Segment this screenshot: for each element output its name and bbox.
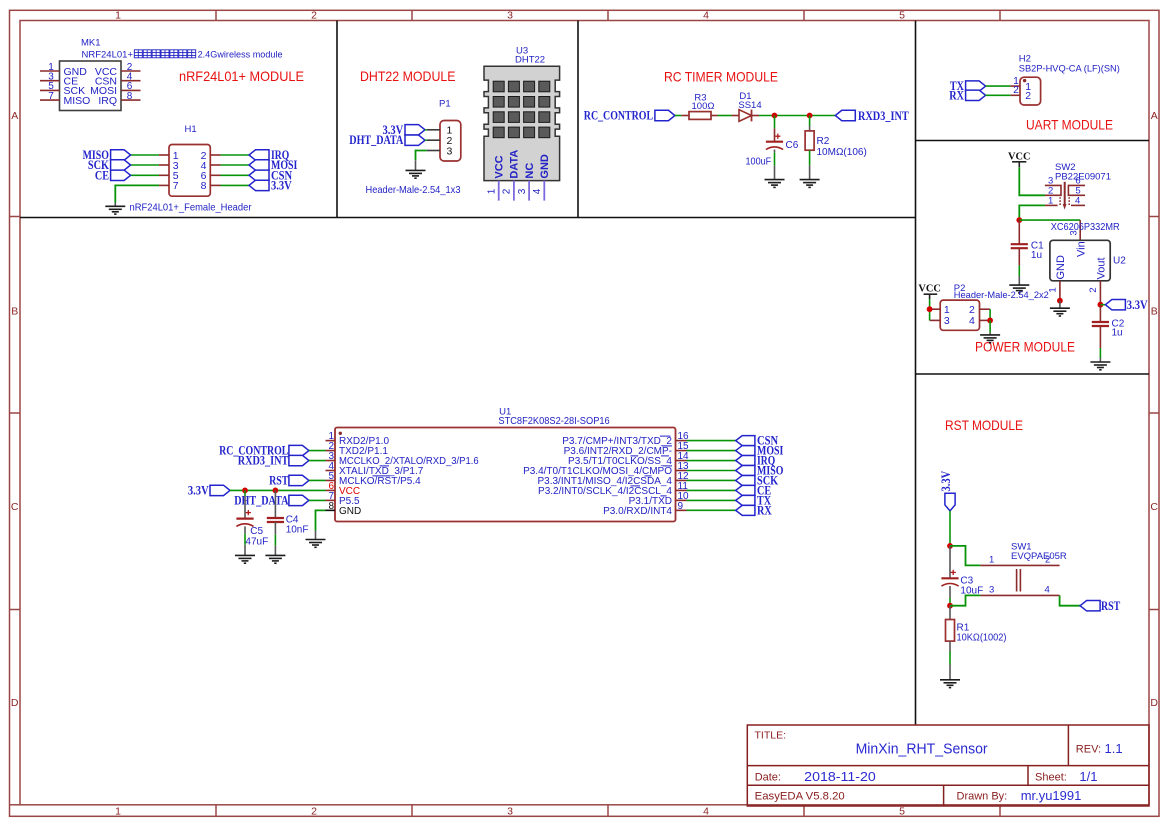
svg-text:NRF24L01+: NRF24L01+ (82, 50, 134, 61)
svg-text:4: 4 (969, 315, 975, 327)
svg-text:2.4Gwireless module: 2.4Gwireless module (198, 50, 283, 61)
H2 pin 2 stub (1010, 94, 1020, 96)
svg-text:5: 5 (899, 806, 905, 818)
H1 pin 3 stub (159, 164, 169, 166)
svg-text:8: 8 (127, 91, 133, 102)
svg-text:R2: R2 (817, 136, 830, 147)
svg-text:2: 2 (502, 188, 513, 194)
wire U1 pin 13 to flag (687, 469, 736, 471)
svg-text:47uF: 47uF (245, 537, 268, 548)
svg-text:RST MODULE: RST MODULE (945, 417, 1023, 433)
H1 pin 8 stub (210, 184, 220, 186)
H1 pin 5 stub (159, 174, 169, 176)
net flag RC_CONTROL (655, 110, 675, 120)
MK1 pin 2 stub (121, 70, 141, 72)
svg-text:Sheet:: Sheet: (1035, 772, 1067, 784)
frame column ticks top/bottom (215, 10, 217, 20)
MK1 pin 8 stub (121, 99, 141, 101)
ground P1 (406, 170, 426, 178)
svg-text:RC_CONTROL: RC_CONTROL (584, 109, 653, 123)
wire R3 to D1 (711, 115, 718, 117)
net flag CE (111, 170, 131, 180)
MK1 pin 3 stub (40, 80, 60, 82)
svg-text:C: C (11, 501, 19, 513)
ground R2 (800, 180, 820, 188)
svg-text:UART MODULE: UART MODULE (1026, 117, 1113, 133)
svg-text:4: 4 (532, 188, 543, 194)
U1 pin 2 stub (326, 450, 336, 452)
svg-text:VCC: VCC (1008, 150, 1031, 162)
resistor R2 10M (809, 116, 811, 127)
svg-text:A: A (11, 110, 18, 122)
net flag 3.3V at Vout (1100, 304, 1105, 306)
svg-text:1: 1 (989, 554, 994, 565)
svg-text:RST: RST (269, 473, 289, 487)
net flag IRQ (736, 456, 755, 466)
junction at C6 (772, 113, 778, 119)
U1 pin5 RST overline (373, 475, 391, 477)
svg-text:RC TIMER MODULE: RC TIMER MODULE (664, 69, 778, 85)
junction at R2 (807, 113, 813, 119)
junction P2 pin4 (987, 318, 993, 324)
divider DHT22/RC-timer (577, 21, 579, 218)
MK1 pin 4 stub (121, 80, 141, 82)
svg-text:GND: GND (1055, 255, 1067, 280)
svg-text:1u: 1u (1031, 250, 1042, 261)
svg-text:8: 8 (201, 180, 207, 192)
net flag RC_CONTROL (U1) (289, 445, 309, 455)
U1 pin 11 stub (676, 489, 687, 491)
svg-text:7: 7 (48, 91, 54, 102)
U1 pin 3 stub (326, 460, 336, 462)
H1 pin 4 stub (210, 164, 220, 166)
svg-text:DHT22: DHT22 (515, 55, 545, 66)
U3 pin 3 (528, 181, 530, 201)
H1 pin 2 stub (210, 154, 220, 156)
svg-text:SS14: SS14 (738, 100, 761, 111)
svg-text:2: 2 (1088, 287, 1099, 292)
net flag TX (966, 81, 986, 91)
diode D1 SS14 (739, 110, 752, 122)
wire junction to U2 Vin (1019, 219, 1080, 221)
MK1 pin 6 stub (121, 89, 141, 91)
component MK1 nRF24L01 module symbol (60, 61, 122, 111)
svg-text:C6: C6 (786, 140, 799, 151)
svg-text:10nF: 10nF (286, 524, 309, 535)
ground C6 (765, 180, 785, 188)
svg-text:2: 2 (311, 10, 317, 22)
svg-text:B: B (1151, 306, 1158, 318)
U1 pin 4 stub (326, 469, 336, 471)
svg-text:3.3V: 3.3V (1127, 298, 1148, 312)
capacitor C3 10uF (949, 546, 951, 578)
svg-text:RXD3_INT: RXD3_INT (238, 454, 289, 468)
svg-text:MinXin_RHT_Sensor: MinXin_RHT_Sensor (856, 741, 988, 758)
U1 pin 13 stub (676, 469, 687, 471)
net flag 3.3V (U1 VCC) (210, 485, 230, 495)
U3 grille squares (493, 81, 504, 92)
U1 right label overlines (660, 435, 671, 437)
svg-text:10MΩ(106): 10MΩ(106) (817, 147, 867, 158)
wires TX/RX (986, 85, 1011, 87)
svg-text:C: C (1150, 501, 1158, 513)
svg-text:H1: H1 (185, 124, 197, 135)
net flag SCK (111, 160, 131, 170)
net flag TX (736, 495, 755, 505)
svg-text:1: 1 (1048, 195, 1053, 206)
svg-text:5: 5 (899, 10, 905, 22)
svg-text:DATA: DATA (509, 150, 521, 179)
P1 pin 1 stub (427, 129, 440, 131)
U3 pin 4 (543, 181, 545, 201)
ground C4 (265, 555, 285, 563)
svg-text:U2: U2 (1113, 256, 1126, 267)
svg-text:2: 2 (1013, 85, 1019, 96)
divider nRF/DHT22 (336, 21, 338, 218)
net flag MOSI (249, 160, 269, 170)
svg-text:3: 3 (507, 10, 513, 22)
capacitor C2 1u (1099, 305, 1101, 322)
wire U1 pin 14 to flag (687, 460, 736, 462)
capacitor C5 47uF (244, 490, 246, 496)
U2 pin1 GND stub (1059, 281, 1061, 301)
P1 pin 3 stub (427, 150, 440, 152)
MK1 pin 7 stub (40, 99, 60, 101)
svg-text:VCC: VCC (918, 283, 941, 295)
svg-text:mr.yu1991: mr.yu1991 (1021, 788, 1082, 803)
junction C5 (242, 488, 248, 494)
wire U1 pin 16 to flag (687, 440, 736, 442)
svg-text:RXD3_INT: RXD3_INT (858, 109, 909, 123)
ground R1 (940, 680, 960, 688)
svg-text:RST: RST (1101, 599, 1121, 613)
svg-text:1/1: 1/1 (1079, 769, 1097, 784)
resistor R1 10K (949, 606, 951, 620)
svg-text:4: 4 (1075, 195, 1080, 206)
net flag RST (1080, 601, 1100, 611)
svg-text:Drawn By:: Drawn By: (957, 791, 1008, 803)
U1 pin 7 stub (326, 499, 336, 501)
net flag RXD3_INT (U1) (289, 455, 309, 465)
net flag RX (966, 90, 986, 100)
U2 pin2 Vout stub (1099, 281, 1101, 305)
U3 pin 2 (513, 181, 515, 201)
module divider horizontal (top modules bottom) (20, 217, 916, 219)
junction RST top (947, 543, 953, 549)
svg-text:2018-11-20: 2018-11-20 (804, 769, 876, 784)
wire U1 pin 9 to flag (687, 509, 736, 511)
svg-text:IRQ: IRQ (98, 95, 117, 107)
svg-text:1: 1 (115, 10, 121, 22)
net flag MISO (111, 150, 131, 160)
svg-text:DHT_DATA: DHT_DATA (234, 493, 288, 507)
net flag CSN (736, 436, 755, 446)
svg-text:100Ω: 100Ω (692, 101, 715, 112)
svg-text:10KΩ(1002): 10KΩ(1002) (957, 633, 1007, 644)
svg-text:EasyEDA V5.8.20: EasyEDA V5.8.20 (755, 791, 845, 803)
svg-text:B: B (11, 306, 18, 318)
svg-text:CE: CE (95, 168, 109, 182)
svg-text:3.3V: 3.3V (188, 483, 209, 497)
net flag 3.3V vertical (945, 493, 955, 511)
ground C2 (1090, 362, 1110, 370)
svg-text:REV:: REV: (1076, 744, 1101, 756)
frame bottom corner ticks (10, 804, 21, 806)
svg-text:P3.0/RXD/INT4: P3.0/RXD/INT4 (603, 506, 672, 517)
net flag IRQ (249, 150, 269, 160)
net flag MISO (736, 465, 755, 475)
ground C5 (235, 555, 255, 563)
U1 pin 15 stub (676, 450, 687, 452)
wire U1 pin 10 to flag (687, 499, 736, 501)
divider POWER/RST (916, 373, 1150, 375)
svg-text:4: 4 (703, 806, 709, 818)
net flag MOSI (736, 446, 755, 456)
net flag 3.3V at P1 (405, 125, 425, 135)
wire P2 right pins to ground (989, 309, 991, 320)
divider UART/POWER (916, 140, 1150, 142)
svg-text:GND: GND (339, 506, 361, 517)
net flag DHT_DATA (U1) (289, 495, 309, 505)
wires H1 left (131, 154, 159, 156)
junction C1 top (1016, 217, 1022, 223)
svg-text:D: D (11, 697, 19, 709)
svg-text:3: 3 (447, 145, 453, 157)
U1 pin 10 stub (676, 499, 687, 501)
wire VCC to P2 pins (929, 299, 931, 320)
svg-text:RX: RX (949, 88, 964, 102)
capacitor C6 100uF (774, 116, 776, 129)
U1 pin 12 stub (676, 479, 687, 481)
svg-text:nRF24L01+ MODULE: nRF24L01+ MODULE (179, 68, 304, 84)
H1 pin 6 stub (210, 174, 220, 176)
svg-text:C5: C5 (250, 526, 263, 537)
svg-text:MK1: MK1 (81, 38, 101, 49)
svg-text:7: 7 (173, 180, 179, 192)
H1 pin 7 stub (159, 184, 169, 186)
svg-text:4: 4 (703, 10, 709, 22)
U1 pin 5 stub (326, 479, 336, 481)
svg-text:2: 2 (1045, 554, 1050, 565)
svg-text:P1: P1 (439, 99, 451, 110)
net flag RX (736, 505, 755, 515)
svg-text:DHT22 MODULE: DHT22 MODULE (360, 68, 456, 84)
svg-text:4: 4 (1045, 584, 1050, 595)
net flag CE (736, 485, 755, 495)
U2 pin3 Vin stub (1079, 220, 1081, 240)
divider main/right column (915, 21, 917, 726)
wire SW1 pin4 to RST flag (1060, 595, 1081, 605)
svg-text:XC6206P332MR: XC6206P332MR (1051, 222, 1120, 233)
U1 pin1 marker (339, 432, 342, 435)
svg-text:EVQPAE05R: EVQPAE05R (1011, 551, 1067, 562)
wire U1 GND pin to ground (316, 510, 326, 530)
svg-text:PB22E09071: PB22E09071 (1055, 171, 1111, 182)
svg-text:nRF24L01+_Female_Header: nRF24L01+_Female_Header (130, 202, 252, 214)
P2 pin stubs (930, 308, 941, 310)
wire U1 pin 15 to flag (687, 450, 736, 452)
svg-text:2: 2 (311, 806, 317, 818)
wire VCC to SW2 pin2 (1019, 167, 1045, 195)
H1 pin 1 stub (159, 154, 169, 156)
svg-text:1: 1 (1048, 287, 1059, 292)
svg-text:TITLE:: TITLE: (755, 730, 787, 742)
net flag RXD3_INT (835, 110, 855, 120)
resistor R3 (689, 112, 711, 120)
MK1 pin 5 stub (40, 89, 60, 91)
svg-text:3.3V: 3.3V (939, 471, 953, 492)
svg-text:DHT_DATA: DHT_DATA (349, 133, 403, 147)
svg-text:3.3V: 3.3V (271, 178, 292, 192)
wires H1 right (221, 154, 250, 156)
junction Vout (1098, 302, 1104, 308)
wire 3.3V down (949, 511, 951, 546)
frame row ticks left/right (10, 216, 21, 218)
H2 pin 1 stub (1010, 85, 1020, 87)
ground H1 (105, 206, 125, 214)
wire SW2 pin1 to junction (1019, 205, 1045, 220)
svg-text:Header-Male-2.54_1x3: Header-Male-2.54_1x3 (366, 184, 461, 196)
junction C4 (273, 488, 279, 494)
ground U1 (306, 540, 326, 548)
svg-text:100uF: 100uF (746, 157, 772, 168)
wire U1 pin 12 to flag (687, 479, 736, 481)
wire junction to SW1 pin3 (950, 595, 980, 605)
capacitor C4 10nF (274, 490, 276, 518)
ground U2 (1050, 308, 1070, 316)
U1 pin 9 stub (676, 509, 687, 511)
svg-text:3: 3 (989, 584, 994, 595)
U1 pin 8 stub (326, 509, 336, 511)
U3 pin 1 (498, 181, 500, 201)
svg-text:9: 9 (678, 501, 684, 512)
H2 pin1 marker (1023, 79, 1026, 82)
svg-text:1: 1 (944, 304, 950, 316)
MK1 pin 1 stub (40, 70, 60, 72)
net flag CSN (249, 170, 269, 180)
net flag DHT_DATA (405, 135, 425, 145)
wire P1 pin3 to ground (416, 151, 427, 161)
U1 pin 14 stub (676, 460, 687, 462)
svg-text:RX: RX (757, 503, 772, 517)
svg-text:8: 8 (328, 501, 334, 512)
svg-text:MISO: MISO (64, 95, 91, 107)
svg-text:2: 2 (969, 304, 975, 316)
svg-text:1: 1 (486, 188, 497, 194)
svg-text:NC: NC (524, 163, 536, 179)
svg-text:A: A (1151, 110, 1158, 122)
svg-text:STC8F2K08S2-28I-SOP16: STC8F2K08S2-28I-SOP16 (498, 416, 610, 427)
svg-text:Date:: Date: (755, 772, 781, 784)
junction P2 pin1 (927, 306, 933, 312)
svg-text:3: 3 (517, 188, 528, 194)
net flag 3.3V (249, 180, 269, 190)
svg-text:3: 3 (507, 806, 513, 818)
svg-text:VCC: VCC (494, 155, 506, 178)
P1 pin 2 stub (427, 139, 440, 141)
U1 pin 1 stub (326, 440, 336, 442)
U1 pin 16 stub (676, 440, 687, 442)
wire D1 to junction (752, 115, 760, 117)
svg-text:1.1: 1.1 (1105, 741, 1123, 756)
wire flag to R3 (675, 115, 681, 117)
U1 pin4 TXD overline (380, 465, 389, 467)
svg-text:GND: GND (539, 154, 551, 179)
svg-text:1u: 1u (1112, 328, 1123, 339)
svg-text:1: 1 (115, 806, 121, 818)
net flag RST (U1) (289, 475, 309, 485)
net flag SCK (736, 475, 755, 485)
wire junction to SW1 pin1 (950, 546, 980, 566)
ground C1 (1009, 285, 1029, 293)
svg-text:Vout: Vout (1095, 257, 1107, 279)
capacitor C1 1u (1018, 220, 1020, 244)
ground P2 (980, 335, 1000, 343)
wire U1 pin 11 to flag (687, 489, 736, 491)
junction U2 GND (1057, 298, 1063, 304)
svg-text:SB2P-HVQ-CA (LF)(SN): SB2P-HVQ-CA (LF)(SN) (1019, 64, 1120, 75)
wire 3.3V to VCC pin (230, 489, 326, 491)
junction RST bottom (947, 603, 953, 609)
svg-text:2: 2 (1025, 90, 1031, 102)
wire H1 pin7 to ground (115, 185, 159, 202)
title block (747, 725, 1149, 806)
svg-text:3: 3 (944, 315, 950, 327)
U1 pin 6 stub (326, 489, 336, 491)
svg-text:Vin: Vin (1075, 241, 1087, 257)
svg-text:D: D (1150, 697, 1158, 709)
